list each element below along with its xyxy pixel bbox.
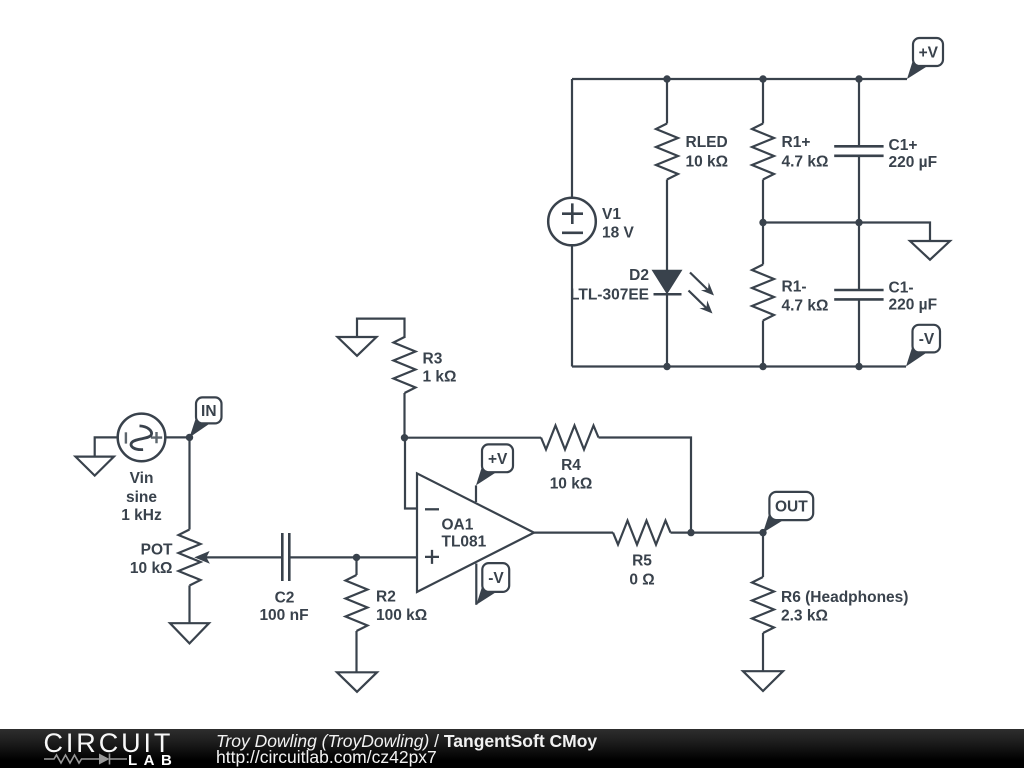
junction R2 node: [353, 554, 360, 561]
label R3 value: [423, 350, 457, 385]
svg-text:4.7 kΩ: 4.7 kΩ: [782, 153, 829, 170]
junction mid rail R1-: [759, 219, 766, 226]
svg-text:1 kHz: 1 kHz: [121, 507, 162, 524]
wire RLED to D2: [666, 180, 668, 272]
svg-text:220 µF: 220 µF: [889, 296, 938, 313]
label R6 value: [781, 589, 908, 625]
svg-text:R2: R2: [376, 589, 396, 606]
label C1+ value: [889, 137, 938, 171]
svg-text:IN: IN: [201, 403, 217, 420]
resistor R4: [541, 426, 599, 450]
wire R5 to OUT node: [671, 531, 764, 533]
svg-text:1 kΩ: 1 kΩ: [423, 368, 457, 385]
wire V1 top lead: [571, 79, 573, 198]
junction feedback node R3: [401, 434, 408, 441]
resistor R1+: [752, 124, 774, 180]
svg-text:-V: -V: [488, 570, 504, 587]
junction feedback output: [687, 529, 694, 536]
svg-text:4.7 kΩ: 4.7 kΩ: [782, 297, 829, 314]
svg-text:C1-: C1-: [889, 279, 914, 296]
ground R2: [337, 672, 377, 692]
svg-text:+V: +V: [919, 45, 939, 62]
label V1 value: [602, 206, 635, 241]
ground mid rail: [910, 241, 950, 260]
resistor RLED: [656, 124, 678, 180]
wire IN node to POT: [188, 437, 190, 529]
ground R6: [743, 671, 783, 691]
capacitor C1-: [834, 290, 883, 299]
svg-text:POT: POT: [141, 541, 173, 558]
svg-text:LTL-307EE: LTL-307EE: [570, 286, 649, 303]
wire opamp output to R5: [534, 531, 613, 533]
svg-text:18 V: 18 V: [602, 224, 635, 241]
capacitor C1+: [834, 146, 883, 156]
wire mid rail to ground: [763, 223, 930, 242]
wire R1+ top lead: [762, 79, 764, 124]
junction OUT node: [759, 529, 766, 536]
wire C1+ bottom lead: [858, 156, 860, 223]
label C2 value: [259, 590, 308, 625]
resistor R3: [394, 337, 416, 393]
junction top rail RLED: [663, 75, 670, 82]
svg-text:0 Ω: 0 Ω: [629, 571, 654, 588]
svg-text:RLED: RLED: [686, 134, 728, 151]
label R1- value: [782, 278, 829, 314]
junction bottom rail C1-: [855, 363, 862, 370]
label R2 value: [376, 589, 427, 625]
svg-text:+V: +V: [488, 451, 508, 468]
resistor R2: [346, 575, 368, 631]
svg-text:R6 (Headphones): R6 (Headphones): [781, 589, 908, 606]
junction top rail C1+: [855, 75, 862, 82]
label C1- value: [889, 279, 938, 313]
ground Vin: [76, 457, 114, 476]
wire R3 to feedback node: [403, 393, 405, 438]
svg-text:10 kΩ: 10 kΩ: [130, 560, 173, 577]
svg-text:D2: D2: [629, 267, 649, 284]
svg-text:R1-: R1-: [782, 278, 807, 295]
svg-text:R3: R3: [423, 350, 443, 367]
wire C1- bottom lead: [858, 299, 860, 366]
source Vin sine: [118, 414, 166, 462]
svg-text:2.3 kΩ: 2.3 kΩ: [781, 608, 828, 625]
svg-text:V1: V1: [602, 206, 621, 223]
svg-text:-V: -V: [919, 331, 935, 348]
capacitor C2: [282, 533, 289, 581]
label R4 value: [550, 457, 593, 493]
svg-text:OUT: OUT: [775, 498, 808, 515]
wire feedback node to R4: [405, 437, 542, 439]
net flag IN: [190, 397, 222, 437]
wire C1- top lead: [858, 223, 860, 291]
net flag +V opamp: [476, 444, 513, 485]
wire opamp -V stub: [475, 564, 477, 605]
svg-text:TL081: TL081: [442, 534, 487, 551]
svg-text:R1+: R1+: [782, 134, 811, 151]
wire Vin left lead to ground: [95, 437, 118, 456]
potentiometer POT: [179, 530, 283, 586]
net flag -V opamp: [476, 563, 509, 605]
wire R6 to ground: [762, 633, 764, 671]
wire node to opamp plus input: [357, 556, 418, 558]
resistor R6: [752, 577, 774, 633]
label D2 value: [570, 267, 649, 303]
svg-text:C1+: C1+: [889, 137, 918, 154]
junction IN node: [186, 434, 193, 441]
label RLED value: [686, 134, 729, 171]
wire R3 hook to ground: [357, 319, 405, 338]
wire top rail +V: [572, 78, 907, 80]
wire R2 top lead: [355, 557, 357, 575]
label POT value: [130, 541, 173, 577]
junction bottom rail R1-: [759, 363, 766, 370]
footer bar: [0, 729, 1024, 768]
LED D2: [654, 271, 715, 314]
resistor R1-: [752, 265, 774, 321]
svg-text:Vin: Vin: [130, 470, 154, 487]
junction mid rail C1-: [855, 219, 862, 226]
label R1+ value: [782, 134, 829, 171]
wire V1 bottom lead: [571, 245, 573, 366]
resistor R5: [613, 521, 671, 545]
power source V1: [548, 198, 596, 246]
CircuitLab logo squiggle: [43, 752, 129, 766]
wire bottom rail -V: [572, 365, 906, 367]
CircuitLab logo LAB: [128, 752, 178, 769]
wire R2 to ground: [355, 631, 357, 672]
svg-text:R5: R5: [632, 552, 652, 569]
wire OUT to R6: [762, 533, 764, 577]
svg-text:10 kΩ: 10 kΩ: [550, 476, 593, 493]
ground R3: [338, 337, 377, 356]
wire D2 to bottom rail: [666, 294, 668, 366]
wire POT to ground: [188, 586, 190, 624]
wire R4 to output node: [599, 438, 692, 533]
wire Vin to IN node: [165, 436, 189, 438]
junction top rail R1+: [759, 75, 766, 82]
wire C1+ top lead: [858, 79, 860, 146]
net flag -V bottom: [906, 325, 940, 367]
svg-text:sine: sine: [126, 489, 157, 506]
attribution line: [216, 731, 597, 752]
url line: [216, 747, 437, 768]
net flag OUT: [763, 492, 813, 533]
wire minus input: [405, 438, 417, 509]
svg-text:R4: R4: [561, 457, 581, 474]
net flag +V top: [907, 38, 943, 79]
svg-text:100 kΩ: 100 kΩ: [376, 607, 427, 624]
label OA1 value: [442, 517, 487, 551]
svg-text:C2: C2: [275, 590, 295, 607]
wire R1+ to mid rail: [762, 180, 764, 223]
svg-text:100 nF: 100 nF: [259, 607, 308, 624]
label Vin value: [121, 470, 162, 524]
ground POT: [170, 623, 209, 643]
svg-text:10 kΩ: 10 kΩ: [686, 153, 729, 170]
wire RLED top lead: [666, 79, 668, 124]
label R5 value: [629, 552, 654, 588]
op-amp OA1: [417, 473, 534, 592]
wire R1- top lead: [762, 223, 764, 265]
wire C2 to R2 node: [289, 556, 356, 558]
CircuitLab logo text: [44, 728, 174, 759]
svg-text:OA1: OA1: [442, 517, 474, 534]
junction bottom rail D2: [663, 363, 670, 370]
wire opamp +V stub: [475, 485, 477, 502]
wire R1- bottom lead: [762, 321, 764, 367]
svg-text:220 µF: 220 µF: [889, 154, 938, 171]
